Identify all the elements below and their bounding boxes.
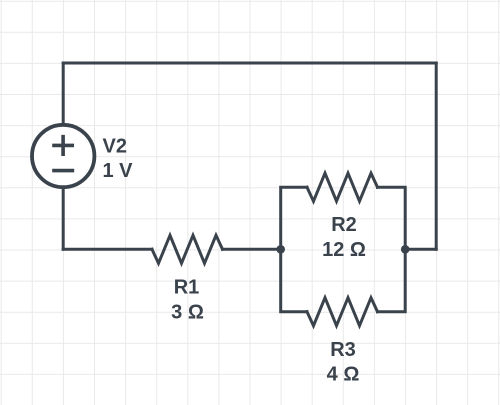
wire: node A down to R3 branch	[281, 249, 307, 311]
voltage source V2	[32, 125, 94, 187]
wire: right outer to node B	[405, 248, 436, 251]
resistor R2	[307, 173, 378, 201]
wire: V2 bottom lead	[62, 187, 65, 249]
svg-text:12 Ω: 12 Ω	[322, 239, 366, 261]
wire: node A up to R2 branch	[281, 187, 307, 249]
wire: R2 to right branch top	[378, 187, 406, 249]
svg-text:R3: R3	[330, 339, 356, 361]
wire: R3 to right branch bottom	[378, 249, 406, 311]
svg-text:R1: R1	[174, 277, 200, 299]
wire: right outer vertical	[435, 63, 438, 249]
svg-text:1 V: 1 V	[103, 160, 134, 182]
resistor R3	[307, 298, 378, 326]
wire: top horizontal run	[63, 62, 436, 65]
svg-text:3 Ω: 3 Ω	[171, 301, 204, 323]
svg-text:V2: V2	[103, 136, 127, 158]
wire: R1 to node A	[223, 248, 281, 251]
node B junction dot	[401, 245, 410, 254]
svg-text:4 Ω: 4 Ω	[327, 364, 360, 386]
node A junction dot	[276, 245, 285, 254]
svg-text:R2: R2	[331, 214, 357, 236]
resistor R1	[152, 235, 223, 263]
wire: bottom run to R1	[63, 248, 152, 251]
wire: V2 top to top-left corner	[62, 63, 65, 125]
